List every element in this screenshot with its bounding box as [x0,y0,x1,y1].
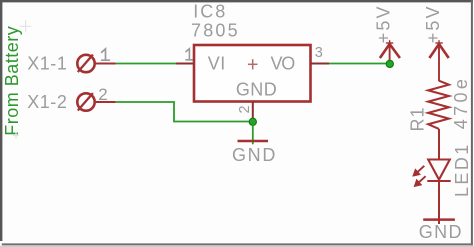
wire X1-1 to IC pin VI [116,63,177,65]
junction dot (GND net) [249,118,256,125]
IC8 pin 1 lead [176,63,194,65]
svg-text:R1: R1 [407,106,427,131]
wire VO to +5V [329,63,390,65]
supply +5V symbol 2 [429,40,448,81]
IC pin 2 lead [252,102,254,122]
connector X1-1 [77,55,115,73]
svg-text:LED1: LED1 [452,142,472,197]
supply +5V symbol 1 [380,40,400,62]
pin number 1 (X1-1) [102,49,110,60]
polarity plus mark [248,59,258,69]
wire R1 to LED1 [438,129,440,159]
svg-text:2: 2 [237,105,253,113]
svg-text:2: 2 [98,85,107,104]
svg-text:VI: VI [208,53,226,73]
regulator IC8 body [194,45,311,102]
label origin cross (lower) [13,133,19,139]
wire X1-2 to GND junction [116,102,253,122]
svg-text:+5V: +5V [373,4,393,43]
svg-text:IC8: IC8 [193,1,227,21]
svg-text:X1-1: X1-1 [27,54,67,74]
ground symbol (IC) [238,140,269,143]
origin cross (upper) [20,20,32,32]
wire LED1 to GND [438,181,440,224]
LED light arrows [413,166,426,187]
svg-text:From Battery: From Battery [2,26,22,136]
svg-text:X1-2: X1-2 [27,92,67,112]
svg-text:7805: 7805 [191,20,240,40]
svg-text:3: 3 [315,45,323,61]
LED LED1 [427,160,450,182]
resistor R1 [428,81,449,129]
svg-text:470e: 470e [451,76,471,130]
pin number 1 (IC) [186,49,192,60]
svg-text:VO: VO [271,53,296,73]
junction dot (+5V net) [386,60,393,67]
svg-text:+5V: +5V [423,4,443,43]
IC pin 3 lead [311,63,330,65]
svg-text:GND: GND [419,222,463,242]
frame border [0,0,2,241]
connector X1-2 [77,93,115,111]
ground symbol (LED) [423,218,455,221]
svg-text:GND: GND [232,145,277,165]
wire junction to GND symbol [252,122,254,145]
svg-text:GND: GND [236,80,277,100]
